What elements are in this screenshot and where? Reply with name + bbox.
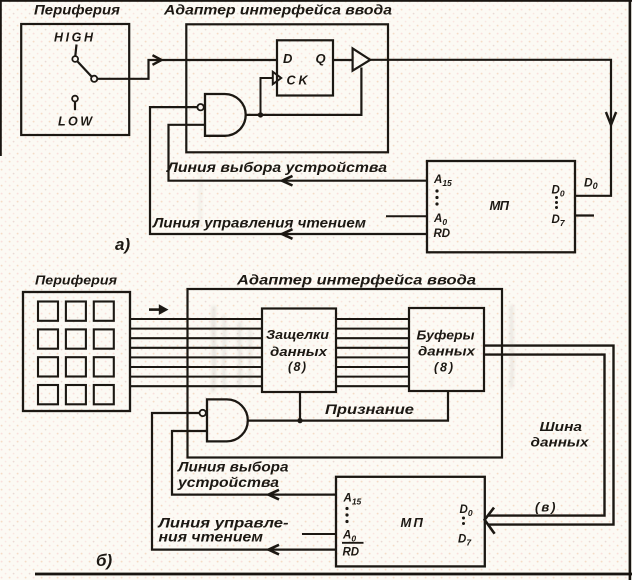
svg-text:D: D — [283, 51, 293, 66]
label Шина данных — [531, 419, 590, 450]
keypad keys — [38, 302, 114, 405]
address ellipsis dots (a) — [435, 189, 438, 205]
data buffers box — [409, 308, 484, 391]
microprocessor box MP (a) — [427, 161, 575, 252]
wire: clock from NAND output — [261, 78, 273, 115]
arrow right on input wire — [153, 55, 162, 65]
svg-text:данных: данных — [418, 345, 476, 359]
svg-text:Линия выбора: Линия выбора — [177, 460, 289, 475]
three-state buffer — [353, 48, 371, 70]
svg-text:Защелки: Защелки — [266, 328, 329, 342]
wire: read control line (a) — [150, 107, 427, 234]
wire: NAND output acknowledge — [248, 391, 448, 420]
svg-text:Признание: Признание — [325, 402, 415, 417]
stub A0 (a) — [386, 215, 427, 217]
svg-text:Периферия: Периферия — [34, 2, 120, 17]
svg-text:Периферия: Периферия — [35, 273, 117, 288]
junction node — [258, 112, 263, 117]
peripheral device box (a) — [21, 24, 129, 135]
svg-text:RD: RD — [434, 228, 451, 240]
8-line data bus: latches to buffers — [336, 319, 409, 386]
svg-text:а): а) — [115, 235, 130, 254]
wire: buffer output to MP D0 — [370, 60, 611, 196]
svg-text:Шина: Шина — [540, 419, 583, 434]
data ellipsis dots (b) — [462, 517, 465, 526]
stub D7 (a) — [575, 214, 594, 216]
arrow left on read line (b) — [269, 545, 280, 555]
svg-text:устройства: устройства — [177, 475, 280, 490]
data latches box — [262, 309, 336, 393]
wire: NAND output to buffer enable — [246, 68, 362, 115]
wire: switch to D input — [97, 60, 277, 79]
overline of RD (b) — [342, 542, 364, 544]
arrow: data bus into MP — [485, 508, 495, 534]
svg-text:RD: RD — [343, 547, 360, 559]
NAND gate (b) — [207, 399, 248, 441]
D flip-flop U1 — [277, 40, 333, 95]
wire: data bus outer — [484, 346, 614, 525]
svg-text:данных: данных — [270, 345, 328, 359]
arrow: data from keypad — [149, 304, 169, 315]
svg-text:(8): (8) — [288, 360, 306, 374]
svg-text:ния чтением: ния чтением — [159, 529, 264, 544]
svg-text:(8): (8) — [434, 361, 453, 375]
clock input wedge — [273, 72, 281, 84]
8-line data bus: keypad to latches — [131, 319, 263, 386]
arrow left on select line (a) — [282, 176, 293, 186]
switch HIGH contact stem — [75, 45, 76, 57]
input interface adapter box (b) — [188, 289, 503, 458]
keypad box — [23, 292, 130, 411]
NAND inverting input bubble (b) — [200, 410, 206, 416]
wire: acknowledge riser to latches — [299, 392, 301, 420]
wire: device select line (a) — [169, 125, 428, 181]
NAND gate (a) — [205, 94, 246, 136]
svg-text:LOW: LOW — [58, 114, 93, 128]
stub A0 (b) — [302, 533, 336, 535]
svg-text:CK: CK — [287, 73, 309, 87]
microprocessor box MP (b) — [336, 477, 485, 567]
svg-text:МП: МП — [490, 198, 510, 213]
switch HIGH contact — [72, 56, 78, 62]
wire: data bus inner — [484, 355, 605, 516]
switch pole contact — [91, 76, 97, 82]
svg-text:Адаптер интерфейса ввода: Адаптер интерфейса ввода — [163, 3, 393, 18]
svg-text:Адаптер интерфейса ввода: Адаптер интерфейса ввода — [236, 272, 477, 287]
svg-text:данных: данных — [531, 434, 590, 449]
input interface adapter box (a) — [186, 24, 388, 152]
wire: Q to buffer — [333, 59, 353, 61]
svg-text:Буферы: Буферы — [417, 329, 475, 343]
svg-text:HIGH: HIGH — [54, 30, 94, 44]
arrow down on data wire — [606, 112, 616, 125]
switch LOW contact stem — [74, 102, 76, 111]
label Буферы данных (8) — [417, 329, 477, 375]
junction node (b) — [297, 418, 302, 423]
data ellipsis dots (a) — [555, 196, 558, 209]
svg-text:(в): (в) — [535, 499, 556, 514]
svg-text:Линия управле-: Линия управле- — [157, 515, 289, 530]
arrow left on read line (a) — [282, 229, 293, 239]
address ellipsis dots (b) — [345, 507, 348, 523]
svg-text:б): б) — [96, 551, 113, 570]
switch LOW contact — [72, 96, 78, 102]
label Защелки данных (8) — [266, 328, 329, 374]
wire: device select line (b) — [172, 431, 336, 495]
wire: read control line (b) — [152, 413, 336, 550]
svg-text:Q: Q — [316, 51, 326, 66]
switch arm — [77, 61, 91, 76]
NAND inverting input bubble (a) — [197, 104, 203, 110]
arrow left on select line (b) — [269, 490, 280, 500]
svg-text:Линия управления чтением: Линия управления чтением — [152, 215, 366, 230]
